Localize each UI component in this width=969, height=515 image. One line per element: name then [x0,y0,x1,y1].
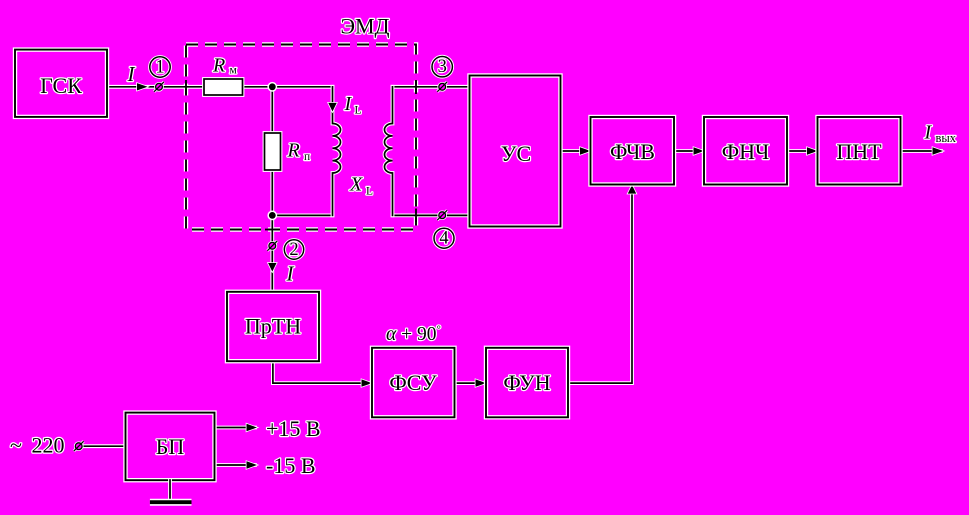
wire terminal 3 to УС [393,85,470,89]
arrowhead current I into terminal 1 [137,83,148,90]
resistor Rп [265,133,281,170]
svg-text:ФНЧ: ФНЧ [722,139,770,164]
arrowhead ФНЧ to ПНТ [807,147,818,154]
wire Rп bottom lead [270,170,274,215]
svg-text:R: R [212,55,225,77]
svg-text:I: I [286,261,295,285]
label I at terminal 1 [127,62,136,86]
wire node 2 down to ПрТН [270,215,274,292]
wire Rм to primary coil [243,85,333,89]
wire ПрТН to ФСУ [273,361,370,383]
svg-text:I: I [344,93,353,115]
ground [150,480,192,502]
label XL [349,174,373,198]
svg-text:I: I [127,62,136,86]
label Iвых [924,122,957,145]
wire ФУН to ФЧВ [568,186,632,383]
svg-text:ФЧВ: ФЧВ [610,139,655,164]
label alpha plus 90 [386,323,441,345]
arrowhead current IL down primary [328,103,336,112]
svg-text:ФУН: ФУН [503,370,550,395]
wire crossing dashed border bottom [265,229,280,231]
svg-text:+15 В: +15 В [266,416,321,441]
label Rм [212,55,238,77]
wire +15 V output [215,426,256,430]
terminal mains clamp [74,441,84,451]
svg-text:L: L [355,104,362,116]
wire ПНТ output [901,149,942,153]
terminal 2 clamp [267,241,277,251]
wire crossing dashed border right top [415,80,417,94]
svg-text:R: R [287,140,300,162]
svg-text:220: 220 [32,432,65,457]
wire -15 V output [215,463,256,467]
svg-text:I: I [924,122,933,144]
label mains 220 V [10,432,65,457]
wire Rп top lead [270,87,274,133]
arrowhead output Iвых [933,147,944,154]
wire crossing dashed border left [185,80,187,94]
svg-text:α + 90°: α + 90° [386,323,441,345]
junction top node [267,82,277,92]
arrowhead ФСУ to ФУН [476,379,487,386]
wire ГСК to Rм [107,85,204,89]
node number 2 [284,240,303,260]
wire bottom node to primary coil [272,213,332,217]
terminal 4 clamp [437,210,447,220]
block ПрТН [227,292,319,361]
svg-text:БП: БП [156,434,185,459]
svg-text:ПНТ: ПНТ [836,139,882,164]
resistor Rм [204,79,243,95]
svg-text:ГСК: ГСК [40,73,82,98]
block ФНЧ [704,117,787,185]
wire УС to ФЧВ [561,149,591,153]
svg-text:4: 4 [439,229,448,249]
svg-text:1: 1 [155,58,164,78]
node number 3 [432,56,452,77]
wire ФНЧ to ПНТ [787,149,818,153]
inductor secondary winding L2 [385,87,393,216]
svg-text:ФСУ: ФСУ [389,370,437,395]
svg-text:УС: УС [501,141,531,166]
block УС [470,76,561,227]
label Rп [287,140,311,164]
svg-text:п: п [304,151,310,163]
block ПНТ [818,117,901,185]
arrowhead -15 V [247,461,258,468]
arrowhead current I down to ПрТН [268,263,276,272]
svg-text:3: 3 [438,57,447,77]
svg-text:2: 2 [289,240,298,260]
block БП power supply [126,413,215,481]
terminal 1 clamp [154,82,164,92]
label +15 V [266,416,321,441]
wire crossing dashed border right bottom [415,209,417,223]
label -15 V [266,453,316,478]
arrowhead ПрТН to ФСУ [362,379,373,386]
arrowhead +15 V [247,424,258,431]
arrowhead ФЧВ to ФНЧ [694,147,705,154]
wire ФСУ to ФУН [455,381,485,385]
terminal 3 clamp [437,82,447,92]
svg-text:L: L [366,185,373,197]
svg-text:X: X [349,174,363,196]
node number 1 [150,57,170,78]
arrowhead ФУН to ФЧВ up [628,185,636,194]
inductor primary winding L1 [333,87,341,216]
svg-text:-15 В: -15 В [266,453,316,478]
svg-text:~: ~ [10,432,22,457]
svg-text:вых: вых [936,131,957,145]
node number 4 [434,228,454,249]
dashed enclosure ЭМД [186,45,416,230]
label IL [344,93,362,117]
block ФУН [486,348,568,418]
block ФЧВ [591,117,675,185]
wire terminal 4 to УС [393,213,470,217]
block ГСК [15,50,107,117]
label I at terminal 2 [286,261,295,285]
svg-text:м: м [230,65,238,77]
svg-text:ПрТН: ПрТН [245,313,301,338]
wire mains to БП [83,444,126,448]
svg-text:ЭМД: ЭМД [340,14,389,39]
wire ФЧВ to ФНЧ [674,149,704,153]
junction bottom node [267,211,277,221]
block ФСУ [372,348,455,418]
label ЭМД [340,14,389,39]
arrowhead УС to ФЧВ [580,147,591,154]
